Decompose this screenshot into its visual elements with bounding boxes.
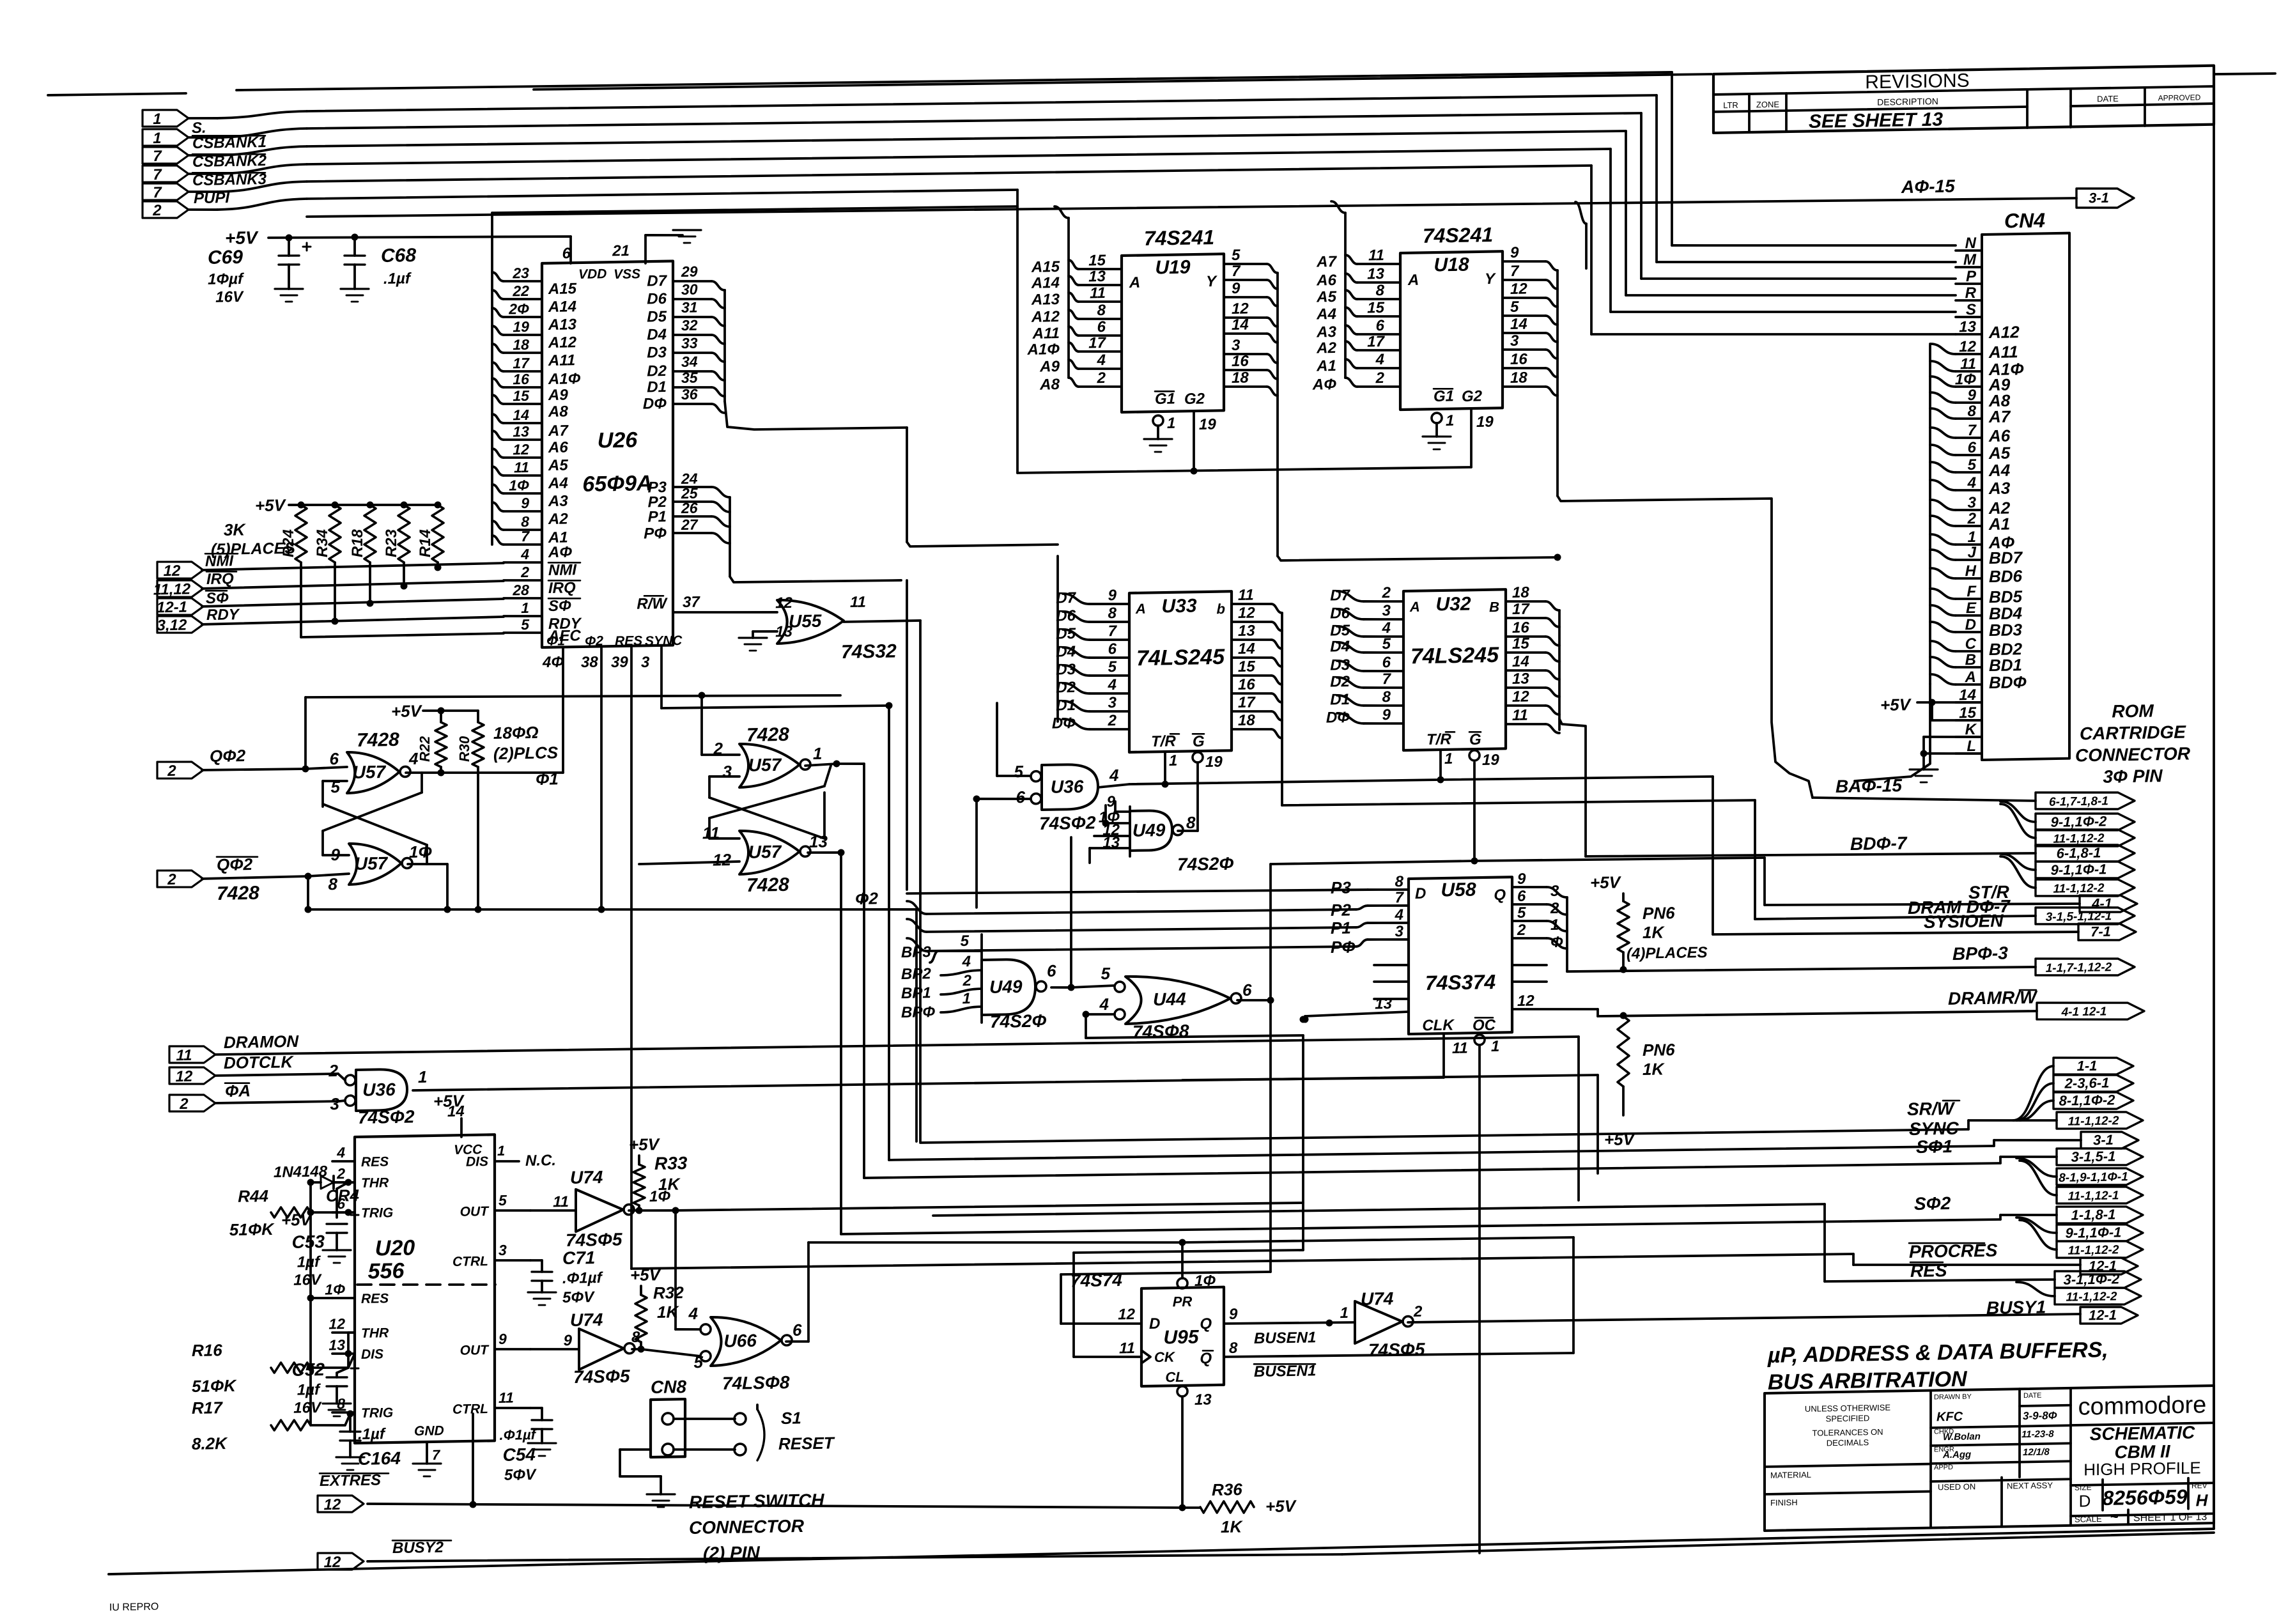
svg-text:8: 8 [1229,1340,1238,1357]
svg-text:17: 17 [1367,333,1385,350]
svg-text:2: 2 [1413,1303,1423,1320]
svg-text:U26: U26 [598,428,638,452]
U32 pin 16 [1506,636,1545,637]
svg-text:19: 19 [1205,754,1223,771]
svg-text:74S374: 74S374 [1425,970,1496,994]
svg-text:5: 5 [1108,658,1117,676]
svg-text:D2: D2 [1330,673,1350,691]
svg-text:C54: C54 [503,1444,536,1465]
U18 output pin 12 [1503,297,1545,298]
svg-text:4: 4 [1108,676,1117,693]
svg-text:APPROVED: APPROVED [2158,93,2201,102]
U26 pin 2Φ A13 [504,316,542,318]
svg-text:A9: A9 [1039,358,1060,376]
U26 pin 29 D7 [673,281,711,282]
flag S01 3-1,5-1 [2057,1147,2143,1166]
svg-text:D3: D3 [1330,656,1350,674]
svg-text:9: 9 [1382,706,1391,723]
svg-text:3: 3 [1382,602,1391,619]
U26 pin 8 A1 [504,529,542,530]
flag BD group 11-1,12-2 [2000,856,2036,888]
svg-text:U33: U33 [1161,595,1196,617]
svg-text:2: 2 [152,202,162,219]
svg-text:7: 7 [432,1447,441,1463]
svg-text:R14: R14 [417,529,434,557]
svg-text:CK: CK [1154,1349,1176,1365]
svg-text:A5: A5 [548,457,568,475]
svg-text:NMI: NMI [548,561,577,579]
svg-text:13: 13 [1194,1391,1212,1408]
svg-text:74SΦ5: 74SΦ5 [1368,1340,1425,1361]
svg-text:THR: THR [361,1326,389,1341]
svg-text:IRQ: IRQ [206,570,234,588]
svg-text:12: 12 [775,594,792,612]
svg-text:AΦ: AΦ [548,543,572,561]
svg-text:D4: D4 [1056,643,1076,661]
svg-text:14: 14 [1512,653,1529,670]
flag BP0-3 1-1,7-1,12-2 [2036,957,2135,977]
svg-text:A11: A11 [1032,325,1060,343]
svg-text:1: 1 [153,130,161,147]
svg-text:16: 16 [1238,676,1255,693]
U58 pin 12 [1512,1008,1598,1011]
U33 pin 15 [1232,675,1271,676]
wire Qbar up right [1572,1237,1575,1353]
svg-text:1: 1 [418,1067,427,1087]
U26 pin 22 A14 [504,298,542,300]
svg-text:NEXT ASSY: NEXT ASSY [2007,1480,2053,1490]
wire AEC [301,633,504,637]
U18 input pin 2 AΦ [1357,386,1400,387]
svg-text:7: 7 [1232,263,1241,280]
svg-text:11-1,12-2: 11-1,12-2 [2066,1290,2117,1304]
svg-text:FINISH: FINISH [1770,1497,1798,1508]
U18 output pin 14 [1503,332,1545,334]
svg-text:CLK: CLK [1422,1017,1455,1035]
svg-text:A9: A9 [548,387,568,405]
U58 pin 3 [1368,939,1409,940]
U33 pin 18 [1232,729,1271,730]
svg-text:29: 29 [681,263,698,280]
wire U57d in12 [639,862,739,864]
svg-text:REV: REV [2191,1481,2207,1490]
wire BP0-3 out [1567,964,2036,975]
svg-text:6: 6 [1517,888,1526,905]
svg-text:7: 7 [153,184,162,201]
U26 pin 9 A2 [504,511,542,512]
svg-text:D4: D4 [647,326,667,344]
svg-text:CARTRIDGE: CARTRIDGE [2080,722,2186,744]
svg-text:RESET: RESET [778,1434,835,1454]
svg-text:C52: C52 [292,1359,325,1380]
svg-text:1Φ: 1Φ [509,477,529,494]
U20 pin 4 RES [332,1161,355,1161]
svg-text:7: 7 [1510,263,1520,280]
U32 pin 11 [1506,723,1545,725]
svg-text:36: 36 [681,386,698,403]
svg-text:18: 18 [1238,712,1255,729]
svg-text:THR: THR [361,1175,389,1191]
wire U57c in2 [702,754,739,755]
svg-text:OUT: OUT [460,1204,490,1219]
U19 input pin 2 A8 [1079,386,1122,387]
flag S02 11-1,12-2 [2020,1219,2057,1250]
svg-text:2: 2 [1382,584,1391,601]
U26 pin 7 AΦ [504,544,542,545]
svg-text:A6: A6 [1316,272,1336,290]
wire U49b output [1051,987,1071,987]
svg-text:BUSY2: BUSY2 [392,1539,444,1557]
svg-text:R/W: R/W [637,595,668,613]
svg-text:74S2Φ: 74S2Φ [1177,854,1233,875]
svg-text:1: 1 [813,744,822,763]
wire CN8 ground [620,1449,651,1450]
svg-text:GND: GND [414,1423,444,1439]
svg-text:U74: U74 [570,1310,603,1330]
wire D bus vertical at U33 [1056,556,1059,722]
svg-text:RESET SWITCH: RESET SWITCH [689,1490,824,1512]
svg-text:6-1,7-1,8-1: 6-1,7-1,8-1 [2049,794,2108,809]
svg-text:6: 6 [1108,640,1117,658]
wire bus line 5 CSBANK3 [189,173,217,174]
U26 pin 2 IRQ [504,580,542,581]
svg-text:U57: U57 [353,762,387,782]
flag Q02 [157,761,203,779]
wire BD0-7 to flags [1584,851,1587,856]
svg-text:RES: RES [361,1291,389,1306]
svg-text:SΦ: SΦ [548,597,571,615]
svg-text:6: 6 [1097,318,1106,336]
svg-text:74S241: 74S241 [1144,226,1214,250]
svg-text:1K: 1K [1643,1059,1665,1079]
svg-text:11-1,12-2: 11-1,12-2 [2068,1114,2119,1128]
svg-text:A4: A4 [1316,305,1336,323]
U19 output pin 5 [1224,263,1267,265]
svg-text:T/R: T/R [1426,731,1451,748]
svg-text:8256Φ59: 8256Φ59 [2102,1485,2187,1510]
svg-text:3-1,1Φ-2: 3-1,1Φ-2 [2064,1271,2121,1288]
svg-text:9-1,1Φ-2: 9-1,1Φ-2 [2051,813,2108,830]
wire U33 bus to right [1282,797,1755,808]
wire EXTRES line [367,1490,1182,1521]
svg-text:G1: G1 [1155,390,1175,408]
svg-text:11: 11 [1090,284,1106,302]
U26 pin 34 D2 [673,371,711,372]
svg-text:D5: D5 [647,308,667,326]
svg-text:G2: G2 [1184,390,1205,408]
svg-text:12: 12 [713,850,731,869]
svg-text:ZONE: ZONE [1756,100,1779,110]
svg-text:A6: A6 [1988,426,2011,445]
svg-text:A2: A2 [1316,339,1336,357]
svg-text:R33: R33 [654,1153,688,1173]
U58 unused input [1374,998,1409,1000]
svg-text:D4: D4 [1330,638,1350,656]
svg-text:16: 16 [1510,350,1527,367]
gate U57b 7428 NOR [349,842,412,885]
wire R24 to AEC line [300,562,302,637]
U32 pin 15 [1506,652,1545,653]
wire RES from U26 pin 39 [630,647,633,1269]
svg-text:.1µf: .1µf [358,1425,386,1443]
svg-text:13: 13 [1512,670,1529,688]
svg-text:+5V: +5V [629,1134,661,1154]
wire U57b in9 cross [323,855,349,855]
wire bus line 3 CSBANK1 [189,137,217,137]
sheet bottom border [109,1529,2214,1574]
svg-text:22: 22 [512,282,529,299]
svg-text:13: 13 [1367,265,1384,282]
svg-text:SPECIFIED: SPECIFIED [1826,1413,1870,1423]
gate U44 74S08 [1125,975,1241,1024]
wire G2 line [1017,465,1471,475]
flag S01 8-1,9-1,10-1 [2016,1157,2057,1177]
wire U49a output to U33 G [1178,830,1198,831]
svg-text:9-1,1Φ-1: 9-1,1Φ-1 [2066,1224,2122,1241]
svg-text:3: 3 [1108,694,1117,711]
wire phi1 from U26 pin 40 [562,647,564,773]
svg-text:A2: A2 [548,511,568,529]
svg-text:6-1,8-1: 6-1,8-1 [2057,844,2101,861]
U19 input pin 4 A9 [1079,368,1122,369]
svg-text:3-9-8Φ: 3-9-8Φ [2023,1409,2057,1422]
wire SYSIOEN path [1441,775,1713,781]
svg-text:BP2: BP2 [901,965,931,983]
U18 output pin 16 [1503,367,1545,369]
svg-text:27: 27 [681,516,699,533]
svg-text:4: 4 [1097,352,1106,369]
svg-text:UNLESS OTHERWISE: UNLESS OTHERWISE [1805,1403,1890,1414]
svg-text:1-1,8-1: 1-1,8-1 [2071,1206,2116,1223]
svg-text:1-1,7-1,12-2: 1-1,7-1,12-2 [2046,961,2112,975]
U33 pin 2 DΦ [1090,729,1129,730]
svg-text:4: 4 [520,546,529,562]
svg-text:9: 9 [1968,387,1977,404]
svg-text:4: 4 [1395,906,1403,924]
resistor R24 [298,501,305,508]
svg-text:R34: R34 [314,529,331,557]
U32 pin 2 D7 [1364,601,1403,602]
svg-text:4: 4 [1375,351,1384,368]
svg-text:74SΦ2: 74SΦ2 [358,1107,415,1128]
svg-text:BAΦ-15: BAΦ-15 [1836,775,1902,796]
svg-text:7: 7 [1382,670,1392,688]
svg-text:11: 11 [850,594,866,611]
svg-text:5: 5 [1232,247,1241,264]
svg-text:U57: U57 [748,755,782,775]
svg-text:4-1 12-1: 4-1 12-1 [2061,1005,2107,1019]
svg-text:5ΦV: 5ΦV [504,1466,537,1484]
capacitor C54 [530,1407,542,1409]
U18 input pin 4 A1 [1357,367,1400,369]
wire U18 Y output bus [1556,270,1559,496]
svg-text:12: 12 [164,562,181,580]
svg-text:Φ1: Φ1 [546,634,565,649]
U26 pin 25 P2 [673,501,711,502]
U26 pin 35 D1 [673,387,711,388]
svg-text:5: 5 [521,616,530,633]
svg-text:2: 2 [336,1165,345,1182]
svg-text:9: 9 [1510,244,1519,261]
wire R18 to S0 line [369,562,371,603]
svg-text:74SΦ2: 74SΦ2 [1039,812,1096,833]
svg-text:A3: A3 [1316,323,1336,341]
svg-text:+5V: +5V [1265,1496,1297,1516]
svg-text:19: 19 [1199,416,1216,433]
svg-text:2: 2 [520,564,529,580]
svg-text:CONNECTOR: CONNECTOR [2075,743,2191,765]
resistor R36 [1182,1506,1200,1510]
gate U36b 74S02 [345,1069,407,1111]
U58 pin 4 [1368,922,1409,924]
svg-text:12: 12 [513,441,529,458]
svg-text:A.Agg: A.Agg [1942,1449,1971,1460]
svg-text:G: G [1193,733,1205,750]
wire U66 output [786,1341,808,1342]
svg-text:2: 2 [1375,369,1385,387]
svg-text:A: A [1407,272,1419,289]
svg-text:3: 3 [641,654,650,671]
svg-text:DRAWN BY: DRAWN BY [1934,1393,1972,1401]
svg-text:11-1,12-1: 11-1,12-1 [2068,1189,2119,1203]
U26 pin 37 R/W [673,610,777,614]
svg-text:RES: RES [1910,1260,1947,1281]
svg-text:(2) PIN: (2) PIN [703,1543,760,1564]
U20 pin 14 VCC [460,1118,463,1137]
wire TRIG2 node [345,1414,350,1425]
svg-text:51ΦK: 51ΦK [229,1219,275,1239]
U19 output pin 16 [1224,369,1267,371]
wire CN4 pins K L to ground [1924,736,1982,738]
svg-text:1: 1 [962,990,971,1007]
wire BA0-15 to flags [1813,794,2036,805]
wire trunk DRAMON right end [1577,1037,1580,1200]
wire U57d in11 cross [709,838,739,839]
svg-text:12: 12 [1232,300,1249,318]
flag BA group 9-1,10-2 [2000,801,2036,823]
capacitor C69 [288,238,290,256]
svg-text:A: A [1135,601,1146,617]
svg-text:D6: D6 [1056,607,1076,625]
flag S02 9-1,10-1 [2016,1217,2057,1233]
U58 pin 8 [1368,889,1409,890]
svg-text:D6: D6 [1330,605,1350,623]
wire EXTRES junction to CN8 [470,1501,477,1508]
svg-text:A1Φ: A1Φ [548,370,581,388]
resistor PN6 second [1618,1016,1629,1087]
svg-text:8-1,9-1,1Φ-1: 8-1,9-1,1Φ-1 [2059,1170,2128,1185]
svg-text:A: A [1129,274,1140,291]
svg-text:3: 3 [330,1094,340,1113]
svg-text:G1: G1 [1434,387,1454,405]
U58 pin 5 [1512,920,1547,922]
U18 input pin 8 A5 [1357,298,1400,300]
svg-text:CTRL: CTRL [452,1402,488,1417]
svg-text:R36: R36 [1212,1480,1242,1499]
flag SR/W group 2-3,6-1 [2053,1074,2133,1093]
svg-text:VSS: VSS [614,267,640,282]
svg-text:3: 3 [723,762,732,781]
flag 1 (S...) [143,109,189,127]
U26 pin 28 SΦ [504,598,542,599]
svg-text:Q: Q [1200,1350,1212,1367]
svg-text:14: 14 [1510,316,1527,333]
svg-text:38: 38 [581,654,598,671]
resistor R14 [435,501,442,508]
wire CN8 to switch [674,1418,735,1419]
wire R34 to RDY line [334,562,336,621]
svg-text:5ΦV: 5ΦV [562,1288,595,1306]
row size number rev [2071,1483,2214,1485]
svg-text:.Φ1µf: .Φ1µf [562,1269,603,1287]
svg-text:H: H [2196,1490,2209,1510]
svg-text:12: 12 [329,1315,345,1332]
svg-text:P1: P1 [648,508,667,525]
svg-text:BPΦ: BPΦ [901,1003,935,1021]
svg-text:6: 6 [1047,961,1056,980]
svg-text:C53: C53 [292,1232,325,1252]
U32 pin 4 D5 [1364,636,1403,637]
svg-text:3K: 3K [224,520,246,539]
wire THR DIS join [347,1333,350,1368]
U95 pin 8 Qbar BUSEN1 [1224,1351,1573,1359]
U95 pin 13 CL [1177,1386,1187,1396]
wire phi1 net [406,770,563,775]
resistor R17 8.2K [271,1419,311,1431]
svg-text:PUPI: PUPI [194,189,230,207]
wire U55 output SR/W [844,621,920,622]
svg-text:3-1,5-1,12-1: 3-1,5-1,12-1 [2046,909,2112,924]
svg-text:7: 7 [1395,889,1405,906]
flag BA group 6-1,7-1,8-1 [2036,791,2135,810]
svg-text:11: 11 [499,1389,514,1406]
svg-text:SHEET 1 OF 13: SHEET 1 OF 13 [2133,1512,2207,1524]
IC U26 6509A [542,261,673,647]
svg-text:BUSY1: BUSY1 [1986,1297,2046,1318]
U18 input pin 17 A2 [1357,350,1400,351]
svg-text:A12: A12 [548,334,577,352]
svg-text:NMI: NMI [205,552,234,570]
svg-text:A12: A12 [1031,308,1060,326]
U18 output pin 9 [1503,261,1545,262]
svg-text:12: 12 [1512,688,1529,706]
svg-text:1-1: 1-1 [2077,1058,2098,1074]
IC U32 74LS245 [1403,589,1506,750]
svg-text:11: 11 [702,823,720,842]
svg-text:14: 14 [513,406,529,423]
svg-text:13: 13 [513,423,529,440]
wire trunk SYNC [889,1141,1994,1165]
wire U49a inputs [1115,810,1130,814]
svg-text:11-1,12-2: 11-1,12-2 [2053,881,2105,895]
svg-text:7428: 7428 [217,883,259,904]
svg-text:U55: U55 [789,611,822,631]
wire R23 to IRQ line [403,562,405,586]
U19 output pin 12 [1224,317,1267,318]
svg-text:Q: Q [1200,1315,1212,1333]
svg-text:DΦ: DΦ [1052,715,1076,732]
svg-text:A1: A1 [1988,514,2010,534]
sheet top border [48,93,186,95]
svg-text:N.C.: N.C. [525,1152,556,1170]
svg-text:PN6: PN6 [1643,1040,1675,1060]
U58 pin 2 [1512,938,1547,939]
svg-text:16V: 16V [293,1399,322,1417]
flag CSBANK2 [143,146,189,164]
wire bus A into U26 [492,204,1017,215]
svg-text:7-1: 7-1 [2091,924,2111,940]
svg-text:R17: R17 [192,1398,223,1418]
